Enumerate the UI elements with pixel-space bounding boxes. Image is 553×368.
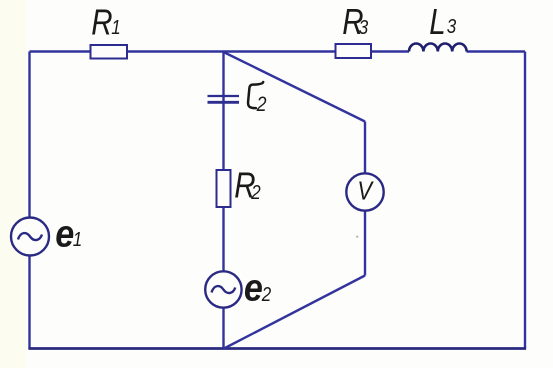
source e2 — [205, 271, 241, 307]
wire: top right after L3 — [467, 50, 526, 52]
capacitor C2 — [208, 96, 240, 102]
svg-text:1: 1 — [111, 16, 120, 39]
svg-text:2: 2 — [261, 283, 272, 306]
voltmeter V — [346, 173, 383, 210]
wire: diagonal from voltmeter branch to bottom node — [224, 276, 365, 349]
resistor R3 — [336, 44, 372, 58]
wire: top side of loop — [30, 50, 410, 52]
svg-text:e: e — [55, 212, 74, 255]
svg-text:3: 3 — [447, 15, 457, 38]
wire: left side of loop — [28, 52, 30, 349]
resistor R1 — [91, 45, 128, 59]
svg-text:R: R — [91, 2, 112, 42]
wire: middle vertical branch (C2-R2-e2) — [222, 52, 224, 349]
svg-text:L: L — [429, 1, 445, 41]
wire: right side of loop — [524, 52, 526, 349]
wire: voltmeter vertical branch — [364, 122, 366, 276]
resistor R2 — [217, 170, 231, 207]
svg-text:e: e — [244, 266, 263, 309]
svg-text:V: V — [357, 177, 373, 206]
source e1 — [11, 218, 49, 256]
svg-text:3: 3 — [359, 16, 369, 39]
svg-text:2: 2 — [256, 93, 267, 117]
wire: bottom side of loop — [28, 347, 526, 350]
inductor L3 — [409, 44, 467, 52]
svg-text:2: 2 — [250, 181, 261, 204]
label C2 — [248, 82, 263, 108]
svg-text:1: 1 — [73, 228, 82, 251]
wire: diagonal from top node to voltmeter branch — [224, 52, 366, 122]
